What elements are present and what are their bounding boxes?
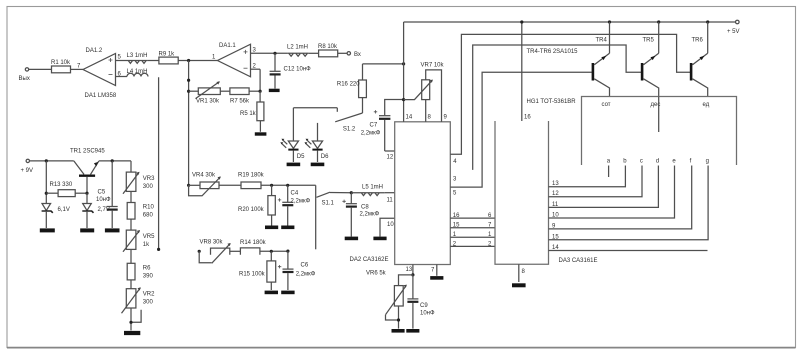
svg-text:16: 16 <box>453 213 460 219</box>
svg-text:сот: сот <box>602 102 611 108</box>
wire bus to VR4 <box>189 184 200 186</box>
wire VR5 to R6 <box>130 249 132 263</box>
wire VR3 to R10 <box>130 191 132 202</box>
resistor R16 <box>337 64 367 113</box>
svg-text:DA3 CA3161E: DA3 CA3161E <box>559 258 598 264</box>
svg-text:15: 15 <box>453 223 460 229</box>
wire emitter rail to VR3 <box>130 161 132 172</box>
svg-text:VR7 10k: VR7 10k <box>421 63 445 69</box>
svg-text:R1 10k: R1 10k <box>51 60 71 66</box>
capacitor C6 <box>278 251 316 290</box>
svg-text:D5: D5 <box>297 154 305 160</box>
wire pin6 to L4 <box>116 72 128 78</box>
ground R20 <box>265 226 278 230</box>
svg-text:5: 5 <box>118 55 122 61</box>
node C4 tap <box>286 184 289 187</box>
svg-text:13: 13 <box>406 267 413 273</box>
segment letters <box>607 159 709 165</box>
svg-text:10: 10 <box>552 213 559 219</box>
svg-text:C4: C4 <box>291 191 299 197</box>
wire R8 to terminal Вх <box>338 52 347 54</box>
resistor R9 <box>159 52 179 64</box>
zener 6.1V <box>42 204 70 229</box>
svg-text:TR6: TR6 <box>692 38 704 44</box>
node pin1/R9 junction <box>187 59 190 62</box>
resistor R1 <box>51 60 71 73</box>
svg-text:10: 10 <box>387 222 394 228</box>
ground C12 <box>269 89 280 92</box>
node VR1 wiper tap <box>187 79 190 82</box>
ground C8 <box>345 237 358 241</box>
svg-text:1k: 1k <box>143 242 150 248</box>
svg-text:b: b <box>623 159 627 165</box>
wire pin12 to segment c <box>549 166 643 198</box>
node VR1 left terminal <box>187 90 190 93</box>
svg-text:c: c <box>640 159 643 165</box>
node rail pin16 <box>520 20 523 23</box>
svg-text:R14 180k: R14 180k <box>240 240 267 246</box>
inductor L2 <box>287 45 309 57</box>
svg-text:12: 12 <box>552 191 559 197</box>
wire R6 to VR2 <box>130 280 132 289</box>
inductor L4 <box>127 69 149 77</box>
svg-text:L4 1mH: L4 1mH <box>127 69 148 75</box>
svg-text:VR1 30k: VR1 30k <box>196 99 220 105</box>
node R15 tap <box>270 250 273 253</box>
svg-text:R13 330: R13 330 <box>50 182 73 188</box>
wire C7 to DA2 pin12 <box>385 151 395 161</box>
wire pin7 to ground <box>431 265 437 276</box>
svg-text:4: 4 <box>453 159 457 165</box>
wire pin16 to pin6 <box>450 213 495 219</box>
wire VR4 to R19 <box>219 184 241 186</box>
wire pin1 to pin1 <box>450 232 495 238</box>
node VR2 bottom <box>129 321 132 324</box>
svg-text:C6: C6 <box>301 263 309 269</box>
wire TR5 collector inside display <box>658 97 660 133</box>
ground 2.7V <box>80 228 94 232</box>
wire VR1 to R7 <box>220 90 230 92</box>
svg-text:12: 12 <box>387 155 394 161</box>
ground C6 <box>281 291 294 295</box>
svg-text:R5 1k: R5 1k <box>240 111 257 117</box>
svg-text:2: 2 <box>253 63 257 69</box>
node VR4 row tap <box>187 184 190 187</box>
svg-text:9: 9 <box>444 115 448 121</box>
wire DA2 pin10 to ground <box>380 218 395 236</box>
svg-text:C7: C7 <box>370 123 378 129</box>
wire pin1 node down feedback bus <box>188 61 190 186</box>
wire R1 to DA1.2 pin7 <box>71 64 84 70</box>
wire L5 to DA2 pin11 <box>385 193 395 204</box>
resistor R6 <box>127 263 153 280</box>
resistor R19 <box>238 173 265 189</box>
svg-text:L5 1mH: L5 1mH <box>362 185 383 191</box>
svg-text:DA1 LM358: DA1 LM358 <box>85 93 117 99</box>
svg-text:R6: R6 <box>143 266 151 272</box>
inductor L3 <box>127 53 148 63</box>
wire pin13 to segment b <box>549 166 626 188</box>
potentiometer VR1 <box>196 81 221 104</box>
svg-text:ед: ед <box>703 102 710 108</box>
wire R10 to VR5 <box>130 219 132 230</box>
node R13 left <box>45 192 48 195</box>
node C6 tap <box>286 250 289 253</box>
ground R15 <box>265 291 278 295</box>
ground C5 <box>105 228 120 232</box>
svg-text:8: 8 <box>522 269 526 275</box>
transistor TR5 <box>642 22 659 97</box>
svg-text:VR6 5k: VR6 5k <box>366 271 387 277</box>
resistor R7 <box>230 88 250 105</box>
svg-text:VR2: VR2 <box>143 292 155 298</box>
resistor R13 <box>46 182 87 197</box>
wire R9 to DA1.1 pin1 <box>178 55 217 61</box>
IC DA2 CA3162E <box>350 122 451 265</box>
ground pin10 <box>373 237 386 241</box>
transistor TR4 <box>593 22 610 97</box>
wire DA2 pin5 to TR4 base <box>450 72 592 196</box>
ground C9 <box>406 329 419 333</box>
svg-text:R7 56k: R7 56k <box>230 99 250 105</box>
node L5/C8 junction <box>350 191 353 194</box>
svg-text:3: 3 <box>453 176 457 182</box>
svg-text:d: d <box>656 159 659 165</box>
wire bus to VR1 <box>189 90 199 92</box>
svg-text:R20 100k: R20 100k <box>238 207 265 213</box>
wire pin9 to segment f <box>549 166 692 230</box>
svg-text:2,2мкФ: 2,2мкФ <box>361 131 381 137</box>
ground VR3 chain <box>124 331 140 335</box>
svg-text:7: 7 <box>431 267 435 273</box>
node rail TR5 <box>657 20 660 23</box>
svg-text:5: 5 <box>453 191 457 197</box>
terminal +9V <box>21 159 34 174</box>
svg-text:2,2мкФ: 2,2мкФ <box>360 212 380 218</box>
zener 2.7V <box>82 193 110 228</box>
capacitor C12 <box>270 53 312 88</box>
node rail TR4 <box>608 20 611 23</box>
capacitor C5 <box>96 161 118 228</box>
svg-text:11: 11 <box>552 202 559 208</box>
wire +5V node to R16 <box>363 63 404 65</box>
svg-text:Вх: Вх <box>354 52 361 58</box>
wire pin2 to pin2 <box>450 241 495 247</box>
svg-text:680: 680 <box>143 213 154 219</box>
svg-text:S1.1: S1.1 <box>322 201 335 207</box>
svg-text:6,1V: 6,1V <box>58 207 70 213</box>
svg-text:DA2 CA3162E: DA2 CA3162E <box>350 257 389 263</box>
wire R19 to S1.1 <box>261 184 316 186</box>
node R20 tap <box>270 184 273 187</box>
potentiometer VR8 <box>199 240 231 264</box>
svg-text:DA1.1: DA1.1 <box>219 43 236 49</box>
svg-text:R10: R10 <box>143 205 155 211</box>
svg-text:3: 3 <box>253 48 257 54</box>
svg-text:C5: C5 <box>98 190 106 196</box>
svg-text:R15 100k: R15 100k <box>239 272 266 278</box>
svg-text:S1.2: S1.2 <box>343 127 356 133</box>
potentiometer VR6 <box>366 271 413 329</box>
svg-text:14: 14 <box>406 115 413 121</box>
svg-text:10нФ: 10нФ <box>420 311 435 317</box>
resistor R14 <box>240 240 267 255</box>
svg-text:C8: C8 <box>361 205 369 211</box>
node VR7 wiper tap <box>402 98 405 101</box>
node VR5 wiper tap <box>157 248 160 251</box>
op-amp DA1.2 <box>83 48 117 99</box>
wire Вых to R1 <box>29 68 52 70</box>
svg-text:f: f <box>690 159 692 165</box>
terminal +5V <box>727 20 740 35</box>
wire VR8 to R14 <box>230 250 241 252</box>
ground D5 <box>287 163 301 167</box>
ground VR6 <box>392 329 405 333</box>
switch S1.1 <box>316 185 352 249</box>
wire segment a stub <box>608 166 610 178</box>
wire pin3 to C12 node <box>251 48 288 54</box>
node rail TR6 <box>706 20 709 23</box>
LED D6 <box>304 139 329 162</box>
svg-text:g: g <box>706 159 709 165</box>
svg-text:D6: D6 <box>321 154 329 160</box>
svg-text:R8 10k: R8 10k <box>318 44 338 50</box>
+5V rail <box>404 21 736 23</box>
ground D6 <box>311 163 325 167</box>
wire pin5 to L3 <box>116 55 128 61</box>
capacitor C8 <box>342 193 379 237</box>
node R13/6.1V branch <box>45 159 48 162</box>
svg-text:VR3: VR3 <box>143 176 155 182</box>
svg-text:DA1.2: DA1.2 <box>86 48 103 54</box>
wire pin8 to ground <box>519 264 526 282</box>
op-amp DA1.1 <box>218 43 251 77</box>
wire S1.2 row <box>293 107 337 109</box>
wire L2 to R8 <box>309 52 319 54</box>
wire R14 to C6 <box>260 250 288 252</box>
svg-text:HG1 TOT-5361BR: HG1 TOT-5361BR <box>527 99 577 105</box>
ground pin7 <box>430 276 443 280</box>
svg-text:300: 300 <box>143 300 154 306</box>
svg-text:16: 16 <box>524 115 531 121</box>
terminal Вых <box>19 68 30 82</box>
svg-text:C12 10нФ: C12 10нФ <box>284 67 312 73</box>
ground R5 <box>255 132 267 135</box>
wire VR2 to ground <box>130 308 132 330</box>
wire DA2 pin4 to TR6 base <box>450 34 691 165</box>
resistor R5 <box>240 91 264 132</box>
svg-text:R19 180k: R19 180k <box>238 173 265 179</box>
svg-text:VR8 30k: VR8 30k <box>200 240 224 246</box>
capacitor C9 <box>407 275 435 329</box>
svg-text:14: 14 <box>552 245 559 251</box>
wire D6 anode stub <box>317 123 319 141</box>
capacitor C4 <box>278 185 311 226</box>
wire +9V to TR1 collector <box>30 160 74 162</box>
LED D5 <box>280 139 305 162</box>
wire pin11 to segment d <box>549 166 659 208</box>
svg-text:1: 1 <box>212 55 216 61</box>
node 5V line tap <box>402 62 405 65</box>
wire pin2 down <box>251 63 261 91</box>
wire 6.1V branch <box>45 161 47 204</box>
svg-text:L3 1mH: L3 1mH <box>127 53 148 59</box>
node C5 tap <box>111 159 114 162</box>
svg-text:8: 8 <box>428 115 432 121</box>
capacitor C7 <box>361 100 404 152</box>
node VR8 left terminal <box>198 250 201 253</box>
svg-text:13: 13 <box>552 181 559 187</box>
IC DA3 CA3161E <box>495 121 598 264</box>
svg-text:2,2мкФ: 2,2мкФ <box>296 272 316 278</box>
resistor R8 <box>318 44 338 57</box>
svg-text:TR4: TR4 <box>596 38 608 44</box>
wire pin15 to segment g <box>549 166 709 241</box>
potentiometer VR5 <box>123 230 155 252</box>
ground 6.1V <box>40 228 55 232</box>
wire DA2 pin3 to TR5 base <box>453 45 642 182</box>
wire TR1 emitter to VR3 chain <box>99 160 131 162</box>
node pin13 <box>411 273 414 276</box>
wire pin13 node <box>406 265 413 275</box>
potentiometer VR4 <box>189 173 221 196</box>
ground DA3 pin8 <box>512 283 526 287</box>
wire R7 to pin2 node <box>249 90 260 92</box>
svg-text:e: e <box>672 159 676 165</box>
inductor L5 <box>351 185 385 196</box>
svg-text:a: a <box>607 159 611 165</box>
svg-text:R16 220: R16 220 <box>337 82 360 88</box>
display HG1 TOT-5361BR <box>527 97 737 166</box>
svg-text:TR1 2SC945: TR1 2SC945 <box>70 149 105 155</box>
node TR1 base / 2.7V <box>85 192 88 195</box>
node C12 tap <box>273 52 276 55</box>
wire pin16 to 5V rail <box>522 22 532 121</box>
svg-text:L2 1mH: L2 1mH <box>287 45 308 51</box>
wire L3 to R9 <box>147 60 159 62</box>
wire D5 anode drop <box>292 108 294 141</box>
svg-text:10нФ: 10нФ <box>96 197 111 203</box>
potentiometer VR3 <box>123 172 155 194</box>
resistor R20 <box>238 185 275 226</box>
svg-text:7: 7 <box>77 64 81 70</box>
svg-text:C9: C9 <box>420 303 428 309</box>
wire pin15 to pin7 <box>450 223 495 229</box>
svg-text:VR5: VR5 <box>143 234 155 240</box>
ground C4 <box>281 226 294 230</box>
svg-text:VR4 30k: VR4 30k <box>192 173 216 179</box>
node pin2/R5 <box>259 90 262 93</box>
terminal Вх <box>347 52 361 58</box>
svg-text:15: 15 <box>552 234 559 240</box>
svg-text:300: 300 <box>143 184 154 190</box>
potentiometer VR7 <box>404 63 445 122</box>
switch S1.2 <box>335 108 362 133</box>
svg-text:390: 390 <box>143 274 154 280</box>
svg-text:R9 1k: R9 1k <box>159 52 176 58</box>
svg-text:+ 9V: + 9V <box>21 168 34 174</box>
transistor TR1 <box>70 149 105 194</box>
wire L4 node down to VR5 wiper <box>158 77 160 249</box>
wire pin10 to segment e <box>549 166 675 219</box>
transistor TR6 <box>691 22 708 97</box>
svg-text:TR5: TR5 <box>643 38 655 44</box>
resistor R10 <box>127 203 154 220</box>
svg-text:2,2мкФ: 2,2мкФ <box>291 198 311 204</box>
svg-text:+ 5V: + 5V <box>727 29 740 35</box>
svg-text:11: 11 <box>387 198 394 204</box>
potentiometer VR2 <box>122 287 156 322</box>
wire pin14 <box>549 245 708 251</box>
resistor R15 <box>239 251 276 290</box>
svg-text:TR4-TR6 2SA1015: TR4-TR6 2SA1015 <box>527 49 579 55</box>
wire +5V rail to pin14 <box>404 22 413 122</box>
svg-text:Вых: Вых <box>19 76 30 82</box>
